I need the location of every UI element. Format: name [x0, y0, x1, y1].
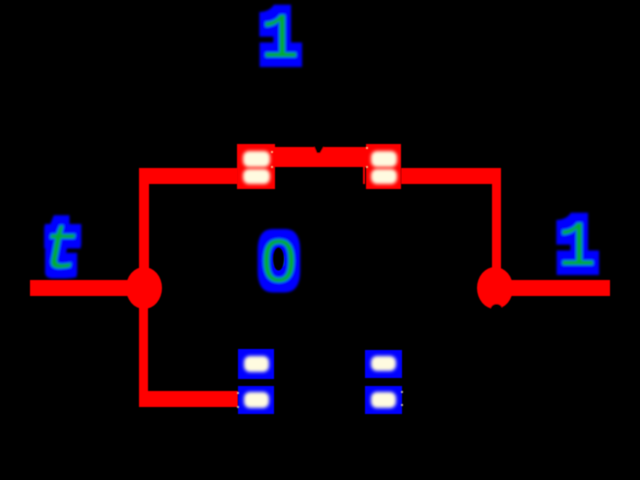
wire stub below middle wire at right contact — [363, 167, 365, 184]
notch in middle wire — [314, 146, 324, 153]
wire W6 middle horizontal between contacts — [270, 147, 370, 167]
svg-text:1: 1 — [261, 5, 299, 77]
wire W11 right output horizontal — [505, 280, 610, 296]
counter hole of 0 — [273, 248, 284, 271]
junction node right — [477, 267, 513, 309]
wire W12 left vertical down — [139, 288, 148, 407]
wire W1 left input horizontal — [30, 280, 150, 296]
wire W3 left vertical up — [139, 168, 149, 288]
contact SW2 upper-right (closed, powered) — [366, 144, 401, 189]
svg-text:1: 1 — [558, 213, 596, 285]
contact SW1 upper-left (closed, powered) — [237, 144, 275, 189]
wire W9 right vertical down — [492, 168, 501, 288]
contact SW3 lower-left (open, unpowered) — [238, 349, 274, 414]
svg-text:t: t — [42, 216, 80, 288]
wire W8 top-right horizontal — [401, 168, 501, 184]
pin dots on contact boxes — [237, 147, 403, 408]
notch in right node — [490, 304, 503, 318]
wire W13 bottom-left horizontal — [139, 391, 238, 407]
wire W4 top-left horizontal — [139, 168, 238, 184]
junction node left — [126, 267, 162, 309]
contact SW4 lower-right (open, unpowered) — [365, 350, 402, 414]
